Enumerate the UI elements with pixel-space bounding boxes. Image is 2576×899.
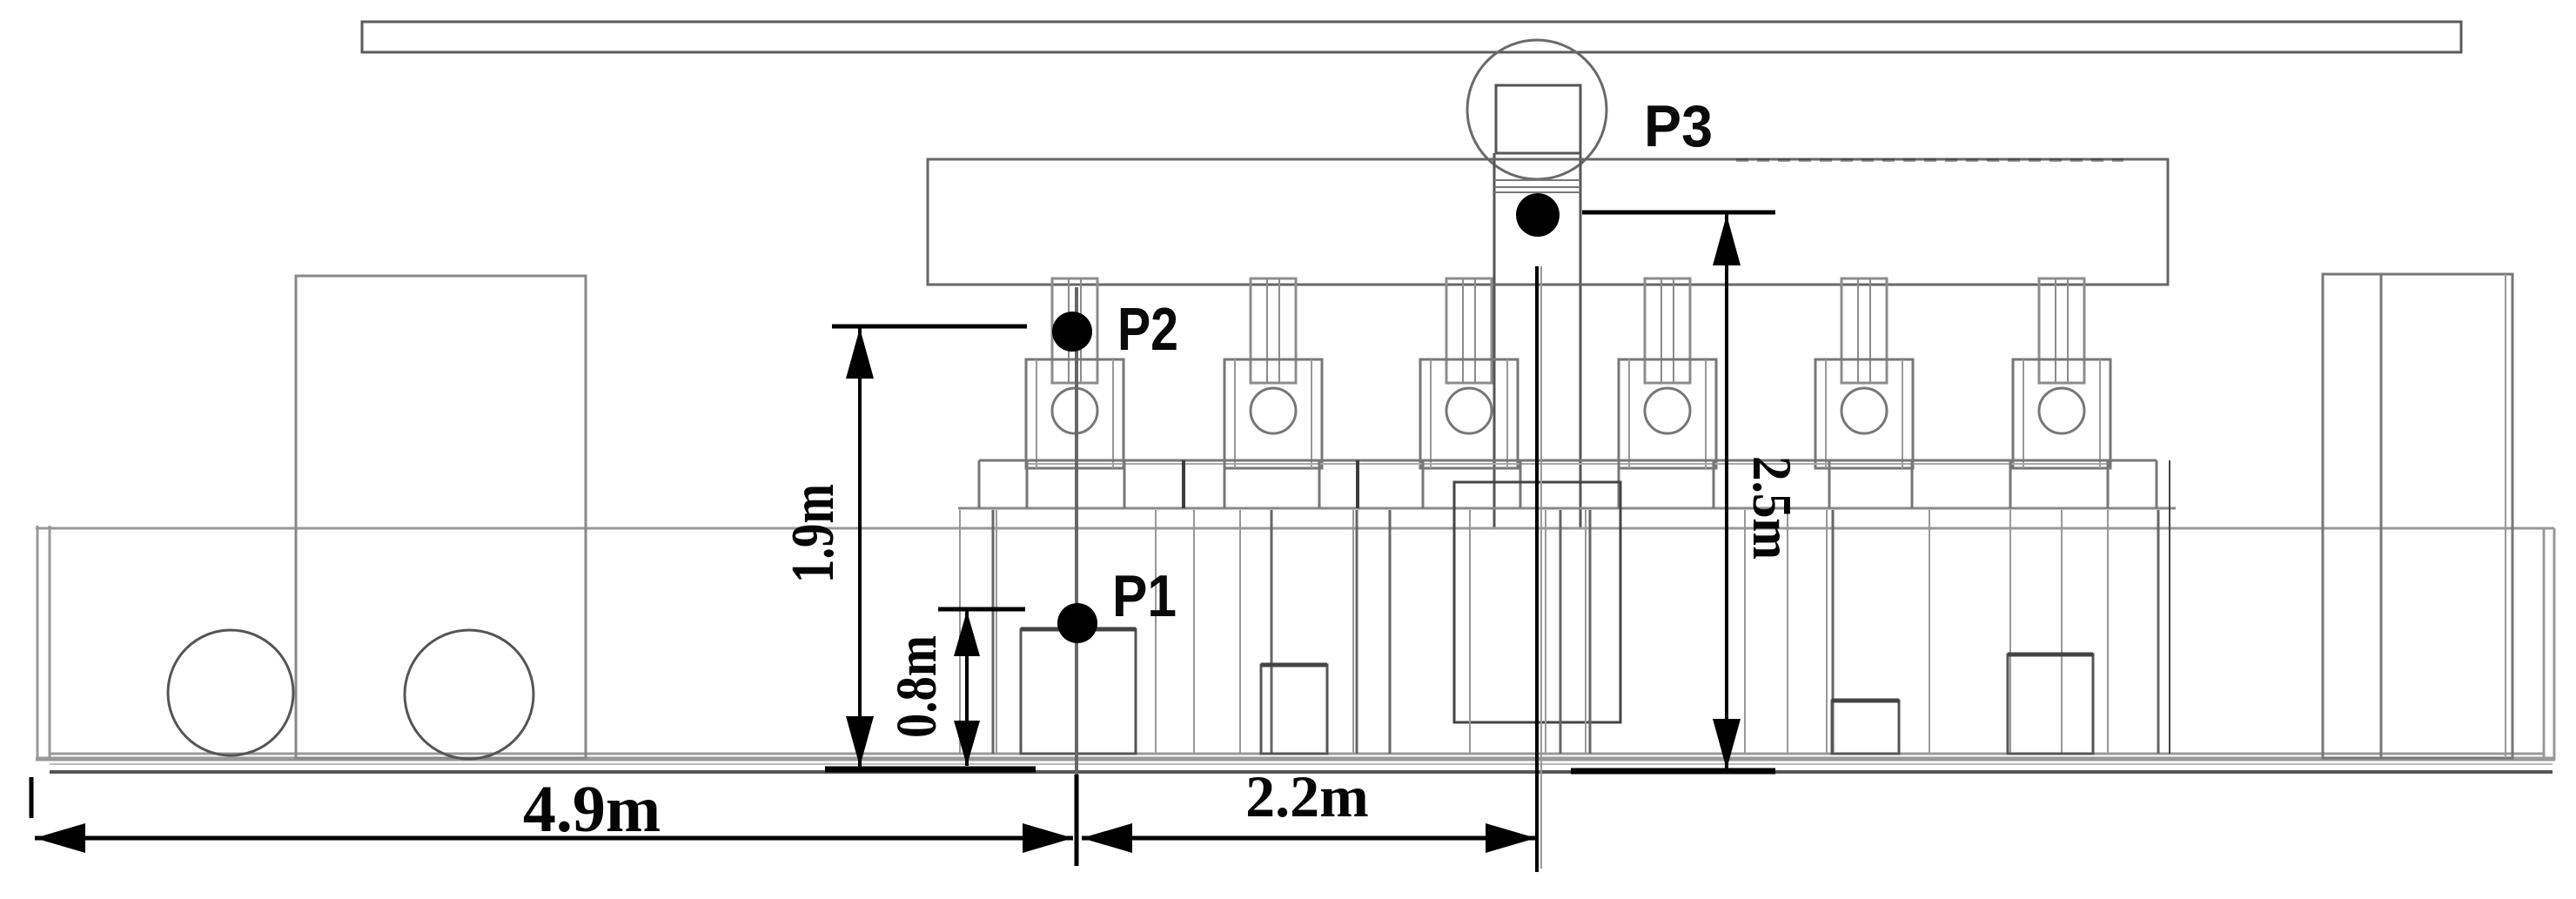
dim 0.8m tick top bbox=[938, 607, 1025, 612]
descending frame lines dark bbox=[993, 510, 2158, 754]
pulley circle on mast top bbox=[1467, 40, 1607, 179]
planting unit 5 hanger column bbox=[1841, 278, 1887, 383]
point P3 bbox=[1516, 193, 1560, 237]
ground float shoe 3 bbox=[1832, 701, 1899, 754]
shelf separators bbox=[979, 460, 2157, 508]
planting unit 5 hub circle bbox=[1841, 388, 1887, 433]
svg-text:2.2m: 2.2m bbox=[1245, 763, 1369, 829]
planting unit 3 gearbox body bbox=[1420, 359, 1518, 468]
dim baseline tick left bbox=[825, 767, 1036, 773]
dim 1.9m tick top bbox=[832, 325, 1027, 329]
point P2 bbox=[1052, 312, 1092, 352]
svg-text:P1: P1 bbox=[1112, 563, 1177, 629]
left wheel bbox=[168, 630, 293, 755]
dim 2.5m arrow bbox=[1725, 214, 1728, 769]
planting unit 2 hub circle bbox=[1251, 388, 1296, 433]
seed trough / hull outline top bbox=[36, 527, 2554, 530]
svg-text:P2: P2 bbox=[1117, 295, 1178, 363]
right wheel bbox=[405, 630, 533, 759]
mast lower frame rect bbox=[1454, 482, 1620, 722]
dim baseline tick right bbox=[1571, 768, 1775, 775]
ground float shoe 2 bbox=[1261, 665, 1327, 754]
svg-text:P3: P3 bbox=[1644, 93, 1713, 159]
planting unit 1 hanger column bbox=[1052, 278, 1097, 383]
point P1 bbox=[1057, 603, 1097, 643]
right tank box bbox=[2323, 274, 2512, 758]
dim 4.9m end tick bbox=[30, 777, 34, 818]
planting unit 6 gearbox body bbox=[2013, 359, 2110, 468]
svg-text:2.5m: 2.5m bbox=[1741, 456, 1803, 560]
dim 4.9m line bbox=[35, 836, 1073, 841]
hull bottom band bbox=[36, 757, 2554, 761]
dim 2.2m line bbox=[1082, 836, 1536, 841]
planting unit 3 hanger column bbox=[1446, 278, 1492, 383]
planting unit 4 gearbox body bbox=[1619, 359, 1716, 468]
planting unit 4 hanger column bbox=[1645, 278, 1690, 383]
planting unit 6 hanger column bbox=[2039, 278, 2084, 383]
mast collar lines bbox=[1494, 180, 1580, 192]
planting unit 1 gearbox body bbox=[1026, 359, 1124, 468]
planting unit 5 gearbox body bbox=[1815, 359, 1913, 468]
main frame beam bbox=[928, 159, 2168, 285]
pulley square block bbox=[1496, 85, 1580, 153]
platform shelf top line bbox=[979, 460, 2157, 462]
planting unit 2 gearbox body bbox=[1224, 359, 1322, 468]
ground float shoe 4 bbox=[2008, 654, 2093, 754]
dim 1.9m arrow bbox=[858, 328, 862, 767]
planting unit 1 hub circle bbox=[1052, 388, 1097, 433]
dim 0.8m arrow bbox=[965, 611, 969, 766]
planting unit 4 hub circle bbox=[1645, 388, 1690, 433]
svg-text:4.9m: 4.9m bbox=[523, 773, 661, 846]
svg-text:1.9m: 1.9m bbox=[780, 484, 847, 583]
reference line through P1 P2 bbox=[1075, 287, 1078, 775]
scan-noise dashed line on beam top bbox=[1736, 158, 2123, 162]
top boom bar bbox=[362, 22, 2461, 52]
hull right edge bbox=[2543, 528, 2546, 761]
ground float shoe 1 bbox=[1021, 629, 1136, 754]
planting unit 2 hanger column bbox=[1251, 278, 1296, 383]
dim 2.5m tick top bbox=[1582, 211, 1775, 215]
platform shelf bottom line bbox=[958, 507, 2176, 510]
hull left edge bbox=[37, 526, 39, 761]
descending frame lines light bbox=[960, 510, 2108, 754]
reference line through P3 bbox=[1535, 266, 1539, 872]
skid bottom dark line bbox=[50, 770, 2553, 774]
planting unit 6 hub circle bbox=[2039, 388, 2084, 433]
planting unit 3 hub circle bbox=[1446, 388, 1492, 433]
svg-text:0.8m: 0.8m bbox=[885, 635, 949, 738]
hull inner bottom bbox=[50, 753, 2544, 755]
left cab box bbox=[296, 276, 586, 758]
platform shelf inner line bbox=[1027, 463, 2108, 465]
mast column bbox=[1494, 148, 1580, 528]
